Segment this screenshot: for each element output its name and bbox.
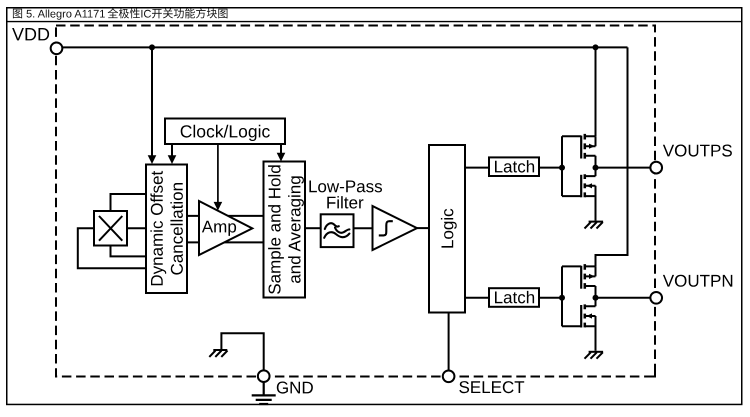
label Latch 2	[495, 291, 534, 304]
wire hall element left output	[78, 228, 146, 268]
hall element (X plate)	[94, 211, 127, 246]
wire to VOUTPN pin	[596, 297, 651, 299]
schmitt hysteresis symbol	[379, 221, 393, 235]
wire logic to latch 1	[465, 167, 489, 169]
terminal VOUTPS	[650, 162, 662, 174]
label Dynamic Offset Cancellation (rotated)	[150, 171, 166, 285]
gate rail output stage 1	[561, 136, 563, 196]
block Sample and Hold and Averaging	[264, 162, 306, 298]
ground chassis Q2 source	[585, 222, 604, 229]
clock arrow to Amp	[214, 144, 223, 211]
node output stage 2	[593, 295, 599, 301]
wire schmitt to logic	[417, 227, 429, 229]
transistor Q2 (N-channel low side, VOUTPS)	[562, 168, 596, 221]
label Latch 1	[495, 160, 534, 173]
clock arrow to Dynamic Offset Cancellation	[168, 144, 177, 164]
terminal VOUTPN	[650, 292, 662, 304]
label Clock/Logic	[181, 125, 270, 141]
node junction on VDD rail at Q1	[593, 44, 599, 50]
label SELECT	[459, 381, 524, 393]
earth ground below GND	[252, 382, 276, 404]
node gate junction 2	[559, 295, 565, 301]
node output stage 1	[593, 165, 599, 171]
terminal SELECT	[443, 370, 455, 382]
latch 1 box	[489, 157, 539, 176]
transistor Q1 (P-channel high side, VOUTPS)	[562, 134, 596, 168]
wire VDD drop to Q1 drain	[595, 47, 597, 136]
label VOUTPS	[663, 145, 732, 157]
block Logic	[429, 145, 465, 313]
label Sample and Hold / and Averaging (rotated)	[268, 165, 284, 294]
label GND	[277, 382, 313, 394]
wire VDD rail	[57, 46, 628, 48]
wire hall element right output	[127, 227, 146, 229]
wire logic to SELECT pin	[448, 313, 450, 371]
gate rail output stage 2	[561, 266, 563, 326]
wire DOC to Amp/S&H lower	[187, 241, 264, 243]
transistor Q4 (N-channel low side, VOUTPN)	[562, 298, 596, 351]
title underline	[6, 21, 742, 23]
wire substrate chassis to GND pin	[221, 333, 263, 370]
wire VDD feed to lower output stage	[596, 47, 628, 266]
schmitt trigger triangle	[373, 206, 418, 250]
op-amp Amp triangle	[199, 201, 252, 255]
ground chassis Q4 source	[585, 352, 604, 359]
label Logic (rotated)	[441, 209, 457, 248]
wire latch 1 to gates	[539, 167, 562, 169]
node junction on VDD rail at bias arrow	[149, 44, 155, 50]
terminal VDD	[51, 42, 63, 54]
label Amp	[202, 221, 236, 236]
label Filter	[327, 196, 363, 209]
wire low-pass filter to schmitt trigger	[354, 227, 373, 229]
wire DOC to Amp/S&H upper	[187, 215, 264, 217]
wire logic to latch 2	[465, 297, 489, 299]
node gate junction 1	[559, 165, 565, 171]
wire arrow VDD to Dynamic Offset Cancellation	[148, 47, 157, 164]
title text: 图 5. Allegro A1171全极性IC开关功能方块图	[13, 8, 228, 20]
label VOUTPN	[663, 275, 732, 287]
IC boundary (dashed)	[56, 26, 655, 377]
latch 2 box	[489, 288, 539, 307]
transistor Q3 (P-channel high side, VOUTPN)	[562, 264, 596, 298]
block Dynamic Offset Cancellation	[146, 165, 187, 294]
wire hall element bottom output	[111, 246, 147, 257]
terminal GND	[258, 370, 270, 382]
low-pass filter box	[321, 214, 354, 247]
ground chassis (substrate)	[209, 350, 227, 357]
label Low-Pass	[309, 181, 382, 193]
wire hall element top output	[111, 194, 147, 211]
clock/logic box	[165, 119, 285, 145]
wire latch 2 to gates	[539, 297, 562, 299]
label VDD	[12, 28, 49, 40]
wire S&H to low-pass filter	[305, 227, 321, 229]
clock arrow to Sample and Hold	[277, 144, 286, 162]
low-pass filter symbol (waves)	[324, 223, 349, 238]
wire to VOUTPS pin	[596, 167, 651, 169]
